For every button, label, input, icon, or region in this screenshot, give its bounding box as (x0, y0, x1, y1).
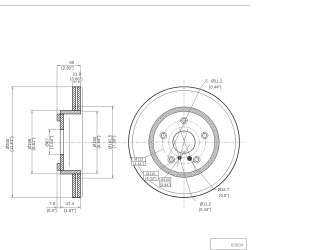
chamfer circle (132, 91, 235, 194)
O67 dim (49, 130, 51, 155)
svg-text:(1.87"): (1.87") (64, 208, 77, 213)
svg-text:(7.58"): (7.58") (112, 135, 117, 149)
flange wall lower (60, 154, 63, 170)
svg-text:60: 60 (69, 60, 74, 65)
flange wall upper (60, 114, 63, 130)
svg-text:(0.3"): (0.3") (47, 208, 58, 213)
lug holes (160, 117, 208, 163)
svg-text:(2.64"): (2.64") (49, 135, 54, 149)
braking surface inner edge ticks (O192.5) (72, 105, 80, 107)
O192.5 dim (112, 106, 114, 178)
leaders (146, 82, 217, 201)
centerlines (117, 141, 244, 143)
svg-text:(4.41"): (4.41") (133, 162, 145, 166)
top web bar (60, 110, 80, 114)
section dim texts (5, 60, 117, 213)
svg-text:(2.36"): (2.36") (61, 66, 74, 71)
svg-text:(6.54"): (6.54") (96, 135, 101, 149)
lip top (57, 114, 60, 121)
center bore (173, 131, 195, 153)
hub flange circle (169, 127, 200, 158)
outer diameter circle (129, 87, 240, 198)
svg-text:(6.61"): (6.61") (31, 137, 36, 151)
small dark holes (177, 156, 181, 160)
svg-text:7.9: 7.9 (49, 201, 56, 206)
outer rim side line (82, 87, 84, 197)
svg-text:(0.86"): (0.86") (70, 77, 83, 82)
60 dim (57, 64, 81, 66)
O166 dim (96, 111, 98, 173)
disc bottom walls hatched (72, 174, 75, 198)
section centerline (46, 141, 117, 143)
svg-text:(3.94"): (3.94") (160, 183, 172, 187)
svg-text:63034: 63034 (231, 242, 244, 247)
front view labels (199, 79, 230, 213)
svg-text:(11.81"): (11.81") (9, 136, 14, 152)
svg-text:Ø110: Ø110 (146, 172, 155, 176)
bolt circle (PCD) dash-dot (162, 120, 205, 163)
part number box (211, 239, 247, 250)
boxed labels (132, 157, 171, 186)
svg-text:(0.5"): (0.5") (219, 193, 230, 198)
svg-text:5 - Ø11.2: 5 - Ø11.2 (205, 79, 223, 84)
dim arrows (12, 65, 113, 208)
svg-text:Ø12.7: Ø12.7 (218, 187, 230, 192)
svg-text:(0.44"): (0.44") (209, 85, 222, 90)
21.9 dim (72, 81, 80, 83)
7.9 / 47.4 dims (47, 206, 81, 208)
svg-text:47.4: 47.4 (66, 201, 75, 206)
O300 dim (12, 87, 14, 198)
disc caps (72, 86, 81, 88)
bore edges (60, 129, 63, 131)
svg-text:Ø100: Ø100 (161, 178, 170, 182)
machined band hatch ring (151, 109, 217, 175)
lip bottom (57, 163, 60, 170)
svg-text:Ø11.2: Ø11.2 (200, 201, 212, 206)
bottom web bar (60, 170, 80, 174)
top divider line (0, 5, 250, 7)
disc top walls hatched (72, 87, 75, 111)
hat inner wall line (68, 118, 70, 167)
svg-text:(0.44"): (0.44") (199, 207, 212, 212)
svg-text:(4.33"): (4.33") (145, 176, 157, 180)
O168 dim (31, 111, 33, 174)
